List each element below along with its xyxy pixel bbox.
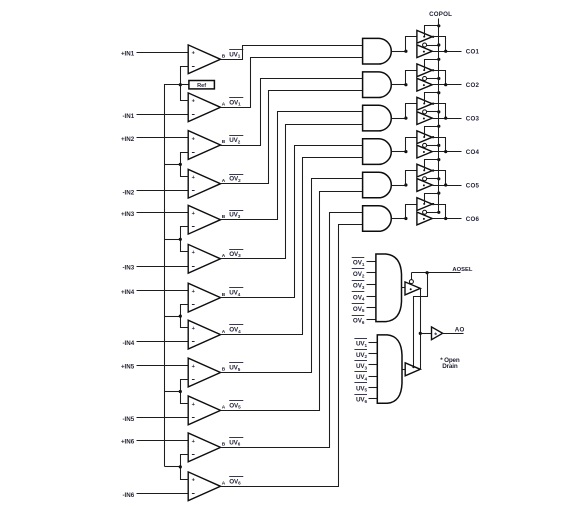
wire ref bus stub ch4 xyxy=(165,316,181,318)
comparator A3 (OV3) xyxy=(188,244,220,273)
svg-text:UV5: UV5 xyxy=(229,365,241,372)
wire ref bus stub ch2 xyxy=(165,164,181,166)
wire buffer input branch ch2 xyxy=(406,71,417,85)
wire UV5 summary input stub xyxy=(369,387,378,389)
node G1 output junction xyxy=(404,50,407,53)
node U2A output bubble xyxy=(432,69,434,71)
wire U5A output to CO5 node xyxy=(433,171,446,186)
net label UV3 (comparator B3 output) xyxy=(229,211,243,220)
wire OV6 to AND6 bottom input xyxy=(221,225,363,487)
tri-state buffer U6A xyxy=(417,198,432,211)
AND gate G1 xyxy=(363,38,392,64)
node G3 output junction xyxy=(404,117,407,120)
svg-text:OV1: OV1 xyxy=(229,99,241,106)
comparator A6 (OV6) xyxy=(188,472,220,501)
wire +IN5 to comparator B5 xyxy=(137,365,189,367)
wire AO buffer input xyxy=(421,333,432,335)
wire U4B enable from COPOL xyxy=(427,145,439,147)
wire -IN1 to comparator A1 xyxy=(137,114,189,116)
svg-text:OV6: OV6 xyxy=(353,318,365,325)
node COPOL tap U3B xyxy=(437,110,440,113)
wire ref bus vertical xyxy=(165,85,181,467)
comparator A4 (OV4) xyxy=(188,320,220,349)
tri-state buffer U3A xyxy=(417,97,432,110)
net label UV5 (comparator B5 output) xyxy=(229,363,243,372)
wire +IN2 to comparator B2 xyxy=(137,137,189,139)
node U5A output bubble xyxy=(432,169,434,171)
wire U2A enable from COPOL xyxy=(425,60,439,70)
tri-state buffer U1A xyxy=(417,30,432,43)
wire -IN5 to comparator A5 xyxy=(137,417,189,419)
wire ref bus stub ch5 xyxy=(165,391,181,393)
wire A6 noninverting input from ref node xyxy=(181,467,189,480)
node COPOL tap U5A xyxy=(437,158,440,161)
svg-text:OV2: OV2 xyxy=(353,271,365,278)
AND gate G5 xyxy=(363,172,392,198)
svg-text:CO6: CO6 xyxy=(466,216,480,223)
svg-text:UV5: UV5 xyxy=(356,385,368,392)
comparator A5 (OV5) xyxy=(188,396,220,425)
wire U5B enable from COPOL xyxy=(427,178,439,180)
net label UV1 (comparator B1 output) xyxy=(229,50,243,59)
wire OV5 summary input stub xyxy=(367,307,376,309)
svg-text:B: B xyxy=(222,54,226,60)
svg-text:A: A xyxy=(222,102,226,108)
buffer U15 (AO open-drain) xyxy=(432,327,443,340)
node AOSEL junction xyxy=(426,271,429,274)
net label OV2 (comparator A2 output) xyxy=(229,175,243,184)
wire CO3 output xyxy=(433,118,462,120)
svg-text:OV4: OV4 xyxy=(229,327,241,334)
comparator B3 (UV3) xyxy=(188,205,220,234)
svg-text:A: A xyxy=(222,405,226,411)
wire U4A enable from COPOL xyxy=(425,127,439,137)
wire OV2 to AND2 bottom input xyxy=(221,91,363,184)
node ref junction ch1 xyxy=(179,83,182,86)
wire +IN3 to comparator B3 xyxy=(137,212,189,214)
wire U4A output to CO4 node xyxy=(433,138,446,152)
node CO6 junction xyxy=(444,217,447,220)
net label OV3 (comparator A3 output) xyxy=(229,250,243,259)
net label UV6 (summary gate input) xyxy=(354,395,367,404)
wire CO5 output xyxy=(433,185,462,187)
node ref junction ch2 xyxy=(179,163,182,166)
wire U6A output to CO6 node xyxy=(433,205,446,219)
comparator A2 (OV2) xyxy=(188,169,220,198)
svg-text:OV2: OV2 xyxy=(229,176,241,183)
wire UV1 summary input stub xyxy=(369,342,378,344)
node CO3 junction xyxy=(444,117,447,120)
net label OV1 (summary gate input) xyxy=(352,258,365,267)
node ref junction ch3 xyxy=(179,238,182,241)
wire mux output join xyxy=(420,289,422,370)
svg-text:UV3: UV3 xyxy=(356,363,368,370)
wire B3 inverting input from ref node xyxy=(181,227,189,240)
svg-text:B: B xyxy=(222,139,226,145)
wire A1 noninverting input from ref node xyxy=(181,85,189,101)
svg-text:-IN5: -IN5 xyxy=(122,416,134,423)
svg-text:-IN2: -IN2 xyxy=(122,189,134,196)
wire OV6 summary input stub xyxy=(367,319,376,321)
node COPOL tap U2B xyxy=(437,77,440,80)
svg-text:CO2: CO2 xyxy=(466,82,480,89)
wire UV4 to AND4 top input xyxy=(221,146,363,298)
wire A5 noninverting input from ref node xyxy=(181,392,189,404)
svg-text:A: A xyxy=(222,329,226,335)
wire buffer input branch ch1 xyxy=(406,37,417,52)
net label OV4 (summary gate input) xyxy=(352,292,365,302)
wire U6A enable from COPOL xyxy=(425,194,439,204)
svg-text:-IN1: -IN1 xyxy=(122,113,134,120)
net label OV6 (summary gate input) xyxy=(352,316,365,325)
wire CO4 output xyxy=(433,151,462,153)
svg-text:UV2: UV2 xyxy=(229,137,241,144)
wire +IN4 to comparator B4 xyxy=(137,290,189,292)
net label OV4 (comparator A4 output) xyxy=(229,325,243,334)
svg-text:B: B xyxy=(222,367,226,373)
wire B6 inverting input from ref node xyxy=(181,455,189,467)
svg-text:+IN6: +IN6 xyxy=(121,439,135,446)
wire -IN3 to comparator A3 xyxy=(137,266,189,268)
wire U1A output to CO1 node xyxy=(433,37,446,52)
wire OV2 summary input stub xyxy=(367,272,376,274)
wire B2 inverting input from ref node xyxy=(181,153,189,165)
svg-text:UV1: UV1 xyxy=(356,341,368,348)
wire G2 output xyxy=(392,84,406,86)
node CO4 junction xyxy=(444,150,447,153)
svg-text:OV3: OV3 xyxy=(229,251,241,258)
tri-state buffer U14 (UV path) xyxy=(405,363,420,376)
svg-text:B: B xyxy=(222,292,226,298)
wire G5 output xyxy=(392,185,406,187)
wire U2B enable from COPOL xyxy=(427,78,439,80)
node U3A output bubble xyxy=(432,103,434,105)
wire B4 inverting input from ref node xyxy=(181,305,189,317)
svg-text:UV4: UV4 xyxy=(229,290,241,297)
comparator B4 (UV4) xyxy=(188,283,220,312)
wire UV6 to AND6 top input xyxy=(221,213,363,448)
wire G7 output xyxy=(402,287,406,289)
net label UV2 (summary gate input) xyxy=(354,350,367,360)
wire U3A enable from COPOL xyxy=(425,93,439,104)
svg-text:+IN4: +IN4 xyxy=(121,289,135,296)
wire OV3 to AND3 bottom input xyxy=(221,125,363,259)
svg-text:+IN1: +IN1 xyxy=(121,51,135,58)
node CO2 junction xyxy=(444,83,447,86)
AND gate G3 xyxy=(363,105,392,131)
net label OV6 (comparator A6 output) xyxy=(229,477,243,486)
wire U3B enable from COPOL xyxy=(427,111,439,113)
svg-text:OV1: OV1 xyxy=(353,260,365,267)
node U6A output bubble xyxy=(432,203,434,205)
wire ref bus stub ch6 xyxy=(165,466,181,468)
svg-text:-IN3: -IN3 xyxy=(122,264,134,271)
node ref junction ch4 xyxy=(179,315,182,318)
AND gate G7 (OV summary, 6-input) xyxy=(376,254,402,322)
net label UV4 (summary gate input) xyxy=(354,372,367,382)
wire U13 enable to AOSEL xyxy=(411,273,413,280)
node U4A output bubble xyxy=(432,136,434,138)
wire OV1 summary input stub xyxy=(367,261,376,263)
svg-text:UV6: UV6 xyxy=(356,397,368,404)
wire ref node to Ref block xyxy=(181,84,189,86)
tri-state buffer U1B xyxy=(417,43,432,58)
comparator B1 (UV1) xyxy=(188,45,220,74)
wire CO1 output xyxy=(433,51,462,53)
tri-state buffer U6B xyxy=(417,210,432,225)
wire buffer input branch ch6 xyxy=(406,205,417,219)
tri-state buffer U4A xyxy=(417,131,432,144)
wire ref bus stub ch3 xyxy=(165,239,181,241)
wire +IN1 to comparator B1 xyxy=(137,52,189,54)
net label OV2 (summary gate input) xyxy=(352,269,365,279)
svg-text:OV4: OV4 xyxy=(353,294,365,301)
wire U2A output to CO2 node xyxy=(433,71,446,85)
wire -IN6 to comparator A6 xyxy=(137,493,189,495)
wire UV2 to AND2 top input xyxy=(221,79,363,146)
node ref junction ch6 xyxy=(179,465,182,468)
wire buffer input branch ch3 xyxy=(406,104,417,119)
node G6 output junction xyxy=(404,217,407,220)
net label UV4 (comparator B4 output) xyxy=(229,288,243,297)
node COPOL tap U1A xyxy=(437,24,440,27)
tri-state buffer U2A xyxy=(417,64,432,77)
wire UV1 to AND1 top input xyxy=(221,46,363,60)
wire A4 noninverting input from ref node xyxy=(181,317,189,328)
node G4 output junction xyxy=(404,150,407,153)
net label OV3 (summary gate input) xyxy=(352,281,365,291)
tri-state buffer U5A xyxy=(417,164,432,177)
svg-text:-IN6: -IN6 xyxy=(122,492,134,499)
node COPOL tap U1B xyxy=(437,43,440,46)
svg-text:CO1: CO1 xyxy=(466,49,480,56)
node COPOL tap U4B xyxy=(437,144,440,147)
wire CO6 output xyxy=(433,218,462,220)
wire G8 output xyxy=(403,369,406,371)
comparator A1 (OV1) xyxy=(188,93,220,122)
svg-text:OV5: OV5 xyxy=(229,402,241,409)
net label UV1 (summary gate input) xyxy=(354,339,367,348)
svg-text:COPOL: COPOL xyxy=(429,11,452,18)
node COPOL tap U5B xyxy=(437,177,440,180)
svg-text:UV3: UV3 xyxy=(229,212,241,219)
wire OV4 to AND4 bottom input xyxy=(221,158,363,335)
svg-text:UV4: UV4 xyxy=(356,374,368,381)
net label OV5 (summary gate input) xyxy=(352,304,365,314)
node G2 output junction xyxy=(404,83,407,86)
wire U14 enable from AOSEL xyxy=(414,273,428,367)
svg-text:UV2: UV2 xyxy=(356,352,368,359)
wire A2 noninverting input from ref node xyxy=(181,165,189,177)
tri-state buffer U2B xyxy=(417,77,432,92)
wire UV5 to AND5 top input xyxy=(221,179,363,373)
tri-state buffer U3B xyxy=(417,110,432,125)
wire UV3 summary input stub xyxy=(369,364,378,366)
tri-state buffer U4B xyxy=(417,143,432,158)
svg-text:Drain: Drain xyxy=(442,363,458,370)
svg-text:+IN5: +IN5 xyxy=(121,364,135,371)
wire U5A enable from COPOL xyxy=(425,160,439,171)
wire G1 output xyxy=(392,51,406,53)
AND gate G4 xyxy=(363,139,392,165)
wire buffer input branch ch4 xyxy=(406,138,417,152)
wire OV4 summary input stub xyxy=(367,296,376,298)
node COPOL tap U3A xyxy=(437,91,440,94)
svg-text:CO3: CO3 xyxy=(466,115,480,122)
wire OV5 to AND5 bottom input xyxy=(221,192,363,411)
wire OV3 summary input stub xyxy=(367,284,376,286)
node COPOL tap U6A xyxy=(437,192,440,195)
net label OV1 (comparator A1 output) xyxy=(229,98,243,107)
AND gate G2 xyxy=(363,72,392,98)
svg-text:A: A xyxy=(222,481,226,487)
node ref junction ch5 xyxy=(179,390,182,393)
wire U1A enable from COPOL xyxy=(425,26,439,37)
wire G3 output xyxy=(392,118,406,120)
node CO5 junction xyxy=(444,183,447,186)
wire OV1 to AND1 bottom input xyxy=(221,58,363,108)
svg-text:UV6: UV6 xyxy=(229,439,241,446)
svg-text:*: * xyxy=(434,332,437,339)
AND gate G6 xyxy=(363,206,392,232)
tri-state buffer U13 (OV path) xyxy=(405,280,420,295)
svg-text:AO: AO xyxy=(455,326,465,333)
wire +IN6 to comparator B6 xyxy=(137,440,189,442)
reference block Ref xyxy=(189,81,215,89)
svg-text:AOSEL: AOSEL xyxy=(452,267,472,273)
wire UV4 summary input stub xyxy=(369,376,378,378)
note open drain xyxy=(440,357,460,370)
tri-state buffer U5B xyxy=(417,177,432,192)
comparator B6 (UV6) xyxy=(188,433,220,462)
net label UV5 (summary gate input) xyxy=(354,383,367,393)
comparator B5 (UV5) xyxy=(188,358,220,387)
wire -IN4 to comparator A4 xyxy=(137,341,189,343)
svg-text:B: B xyxy=(222,442,226,448)
svg-text:CO4: CO4 xyxy=(466,149,480,156)
wire B5 inverting input from ref node xyxy=(181,380,189,392)
wire UV2 summary input stub xyxy=(369,353,378,355)
svg-text:+IN3: +IN3 xyxy=(121,211,135,218)
svg-text:+IN2: +IN2 xyxy=(121,136,135,143)
svg-text:Ref: Ref xyxy=(197,83,206,89)
net label OV5 (comparator A5 output) xyxy=(229,401,243,410)
wire UV3 to AND3 top input xyxy=(221,112,363,220)
wire A3 noninverting input from ref node xyxy=(181,240,189,252)
wire AOSEL line xyxy=(412,272,461,274)
svg-text:OV3: OV3 xyxy=(353,283,365,290)
wire B1 inverting input from ref node xyxy=(181,67,189,85)
wire G6 output xyxy=(392,218,406,220)
node CO1 junction xyxy=(444,50,447,53)
net label UV3 (summary gate input) xyxy=(354,361,367,371)
node U1A output bubble xyxy=(432,36,434,38)
wire U3A output to CO3 node xyxy=(433,104,446,119)
net label UV6 (comparator B6 output) xyxy=(229,438,243,447)
wire G4 output xyxy=(392,151,406,153)
svg-text:OV5: OV5 xyxy=(353,306,365,313)
node AO input junction xyxy=(419,332,422,335)
wire -IN2 to comparator A2 xyxy=(137,190,189,192)
svg-text:UV1: UV1 xyxy=(229,51,241,58)
comparator B2 (UV2) xyxy=(188,131,220,160)
AND gate G8 (UV summary, 6-input) xyxy=(377,335,402,403)
wire U1B enable from COPOL xyxy=(427,45,439,47)
svg-text:-IN4: -IN4 xyxy=(122,340,134,347)
wire buffer input branch ch5 xyxy=(406,171,417,186)
net label UV2 (comparator B2 output) xyxy=(229,136,243,145)
wire AO output xyxy=(443,333,464,335)
svg-text:CO5: CO5 xyxy=(466,182,480,189)
svg-text:OV6: OV6 xyxy=(229,478,241,485)
wire CO2 output xyxy=(433,84,462,86)
wire U6B enable from COPOL xyxy=(427,212,439,214)
node COPOL tap U4A xyxy=(437,125,440,128)
node COPOL tap U2A xyxy=(437,58,440,61)
wire COPOL bus xyxy=(438,19,440,213)
node COPOL tap U6B xyxy=(437,211,440,214)
wire UV6 summary input stub xyxy=(369,398,378,400)
node G5 output junction xyxy=(404,183,407,186)
